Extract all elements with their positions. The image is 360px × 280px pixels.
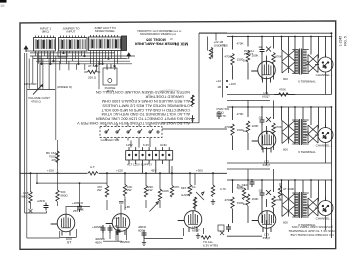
svg-text:47K: 47K: [174, 185, 179, 189]
svg-text:CONNECTED H GND ALL CAPS IN MF: CONNECTED H GND ALL CAPS IN MFD 600 VOLT: [101, 108, 190, 112]
svg-text:INPUT: INPUT: [67, 30, 76, 34]
svg-text:6.3V HTRS: 6.3V HTRS: [203, 244, 218, 248]
svg-text:+150: +150: [47, 169, 54, 173]
svg-text:MIXER PANEL: MIXER PANEL: [95, 29, 115, 33]
svg-text:MIX IN: MIX IN: [175, 42, 188, 47]
svg-text:20MFD: 20MFD: [120, 240, 131, 244]
svg-text:ALL AC VOLT READINGS TO GND WI: ALL AC VOLT READINGS TO GND WITH AC VTVM: [102, 112, 190, 116]
svg-text:POINT: POINT: [244, 52, 253, 56]
svg-text:220K: 220K: [77, 208, 84, 212]
svg-text:+85: +85: [125, 205, 130, 209]
svg-text:250 Ω: 250 Ω: [88, 76, 97, 80]
svg-text:MODEL 305: MODEL 305: [146, 38, 165, 42]
svg-text:OTHERWISE NOTED ALL RES 1/2 WA: OTHERWISE NOTED ALL RES 1/2 WATT UNLESS: [102, 103, 190, 107]
svg-text:100K: 100K: [162, 189, 169, 193]
svg-text:+40MFD: +40MFD: [92, 225, 104, 229]
svg-text:1-2345: 1-2345: [339, 36, 343, 47]
svg-text:1B: 1B: [217, 85, 221, 89]
svg-text:1K: 1K: [192, 185, 196, 189]
svg-text:6SQ7: 6SQ7: [263, 236, 271, 240]
svg-text:(MIC): (MIC): [42, 30, 50, 34]
svg-text:+22: +22: [216, 79, 221, 83]
svg-text:(CHASSIS GND) TERM. NOS.: (CHASSIS GND) TERM. NOS.: [291, 225, 333, 229]
svg-text:GANGED SW: GANGED SW: [101, 138, 120, 142]
svg-text:MIX 3: MIX 3: [181, 186, 189, 190]
svg-text:4700 Ω: 4700 Ω: [31, 100, 42, 104]
svg-text:600V: 600V: [138, 229, 145, 233]
svg-text:+20: +20: [113, 224, 118, 228]
svg-text:(WIRED O): (WIRED O): [57, 85, 72, 89]
svg-text:+105: +105: [229, 82, 236, 86]
svg-text:LT2: LT2: [114, 216, 119, 220]
svg-text:MASTER: MASTER: [24, 82, 37, 86]
svg-text:470K: 470K: [279, 88, 286, 92]
svg-text:680Ω: 680Ω: [61, 193, 69, 197]
svg-text:NO SIG INPUT CONNECT TO 115V 6: NO SIG INPUT CONNECT TO 115V 60C LINE PO…: [96, 117, 190, 121]
svg-text:GANGED TOGETHER: GANGED TOGETHER: [145, 95, 184, 99]
svg-text:6SQ7: 6SQ7: [262, 95, 270, 99]
svg-text:115V: 115V: [126, 143, 133, 147]
svg-text:GT: GT: [67, 241, 71, 245]
svg-text:+150: +150: [116, 169, 123, 173]
svg-text:FIG. 5: FIG. 5: [344, 36, 348, 46]
svg-text:100Ω RES: 100Ω RES: [214, 43, 228, 47]
svg-text:2W: 2W: [127, 188, 132, 192]
svg-text:input: input: [170, 32, 176, 36]
svg-text:6SN7: 6SN7: [192, 229, 200, 233]
svg-text:680Ω: 680Ω: [21, 195, 29, 199]
svg-text:GAIN: GAIN: [181, 193, 188, 197]
svg-text:NOTES: READINGS TAKEN VOLUME C: NOTES: READINGS TAKEN VOLUME CONT FULL O…: [96, 90, 190, 94]
svg-text:+300: +300: [196, 169, 203, 173]
svg-text:1W: 1W: [148, 188, 153, 192]
svg-text:6.3V: 6.3V: [143, 143, 149, 147]
svg-text:W: W: [170, 37, 173, 41]
svg-text:2W: 2W: [52, 158, 57, 162]
svg-text:AT 22: AT 22: [88, 64, 96, 68]
svg-text:2W: 2W: [97, 188, 102, 192]
svg-text:A.T.: A.T.: [90, 165, 95, 169]
svg-text:450V: 450V: [95, 241, 102, 245]
svg-text:ALL RES VALUES IN OHMS K EQUAL: ALL RES VALUES IN OHMS K EQUALS 1000 OHM: [102, 99, 190, 103]
svg-text:ALT 115V SUPPLY: ALT 115V SUPPLY: [127, 163, 152, 167]
svg-text:45V: 45V: [151, 169, 156, 173]
svg-text:+MFD: +MFD: [37, 199, 46, 203]
svg-text:AT 100K: AT 100K: [283, 187, 294, 191]
svg-text:GND: GND: [160, 143, 168, 147]
svg-text:REDWOOD CITY, CALIFORNIA: REDWOOD CITY, CALIFORNIA: [137, 29, 172, 32]
svg-text:6SQ7: 6SQ7: [263, 163, 271, 167]
svg-text:470K: 470K: [237, 186, 244, 190]
